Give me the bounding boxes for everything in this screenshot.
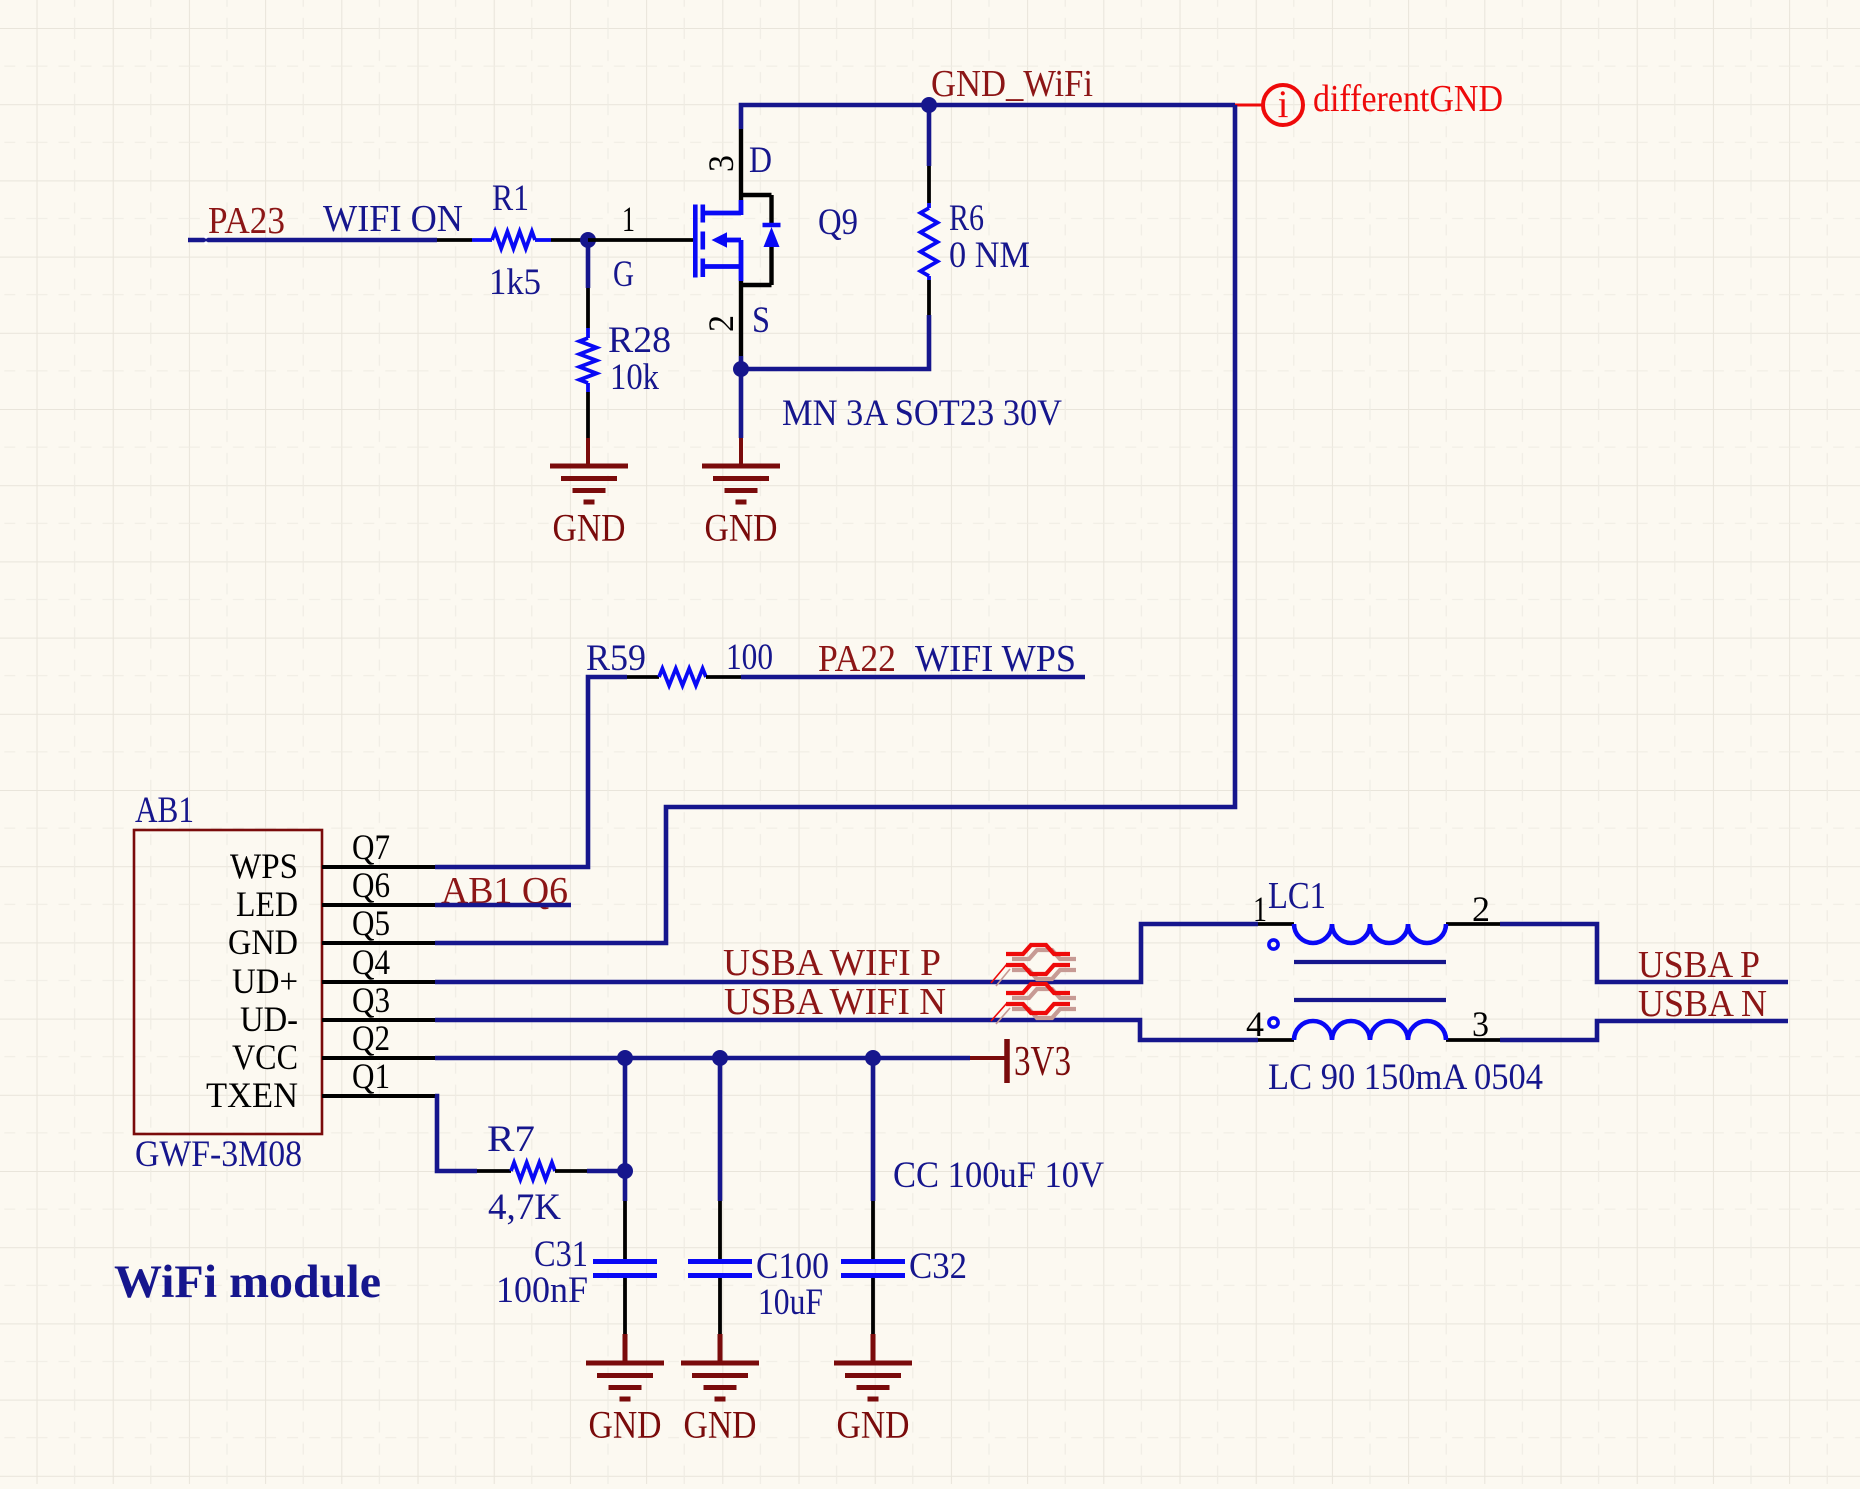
svg-text:Q4: Q4: [352, 942, 390, 982]
core line 1: [1294, 960, 1446, 964]
core line 2: [1294, 998, 1446, 1002]
capacitor C32: [841, 1058, 967, 1334]
capacitor C100: [688, 1058, 829, 1334]
svg-text:differentGND: differentGND: [1313, 78, 1503, 120]
coil winding bottom: [1294, 1021, 1446, 1040]
wire VCC rail: [435, 1056, 970, 1061]
svg-text:WPS: WPS: [230, 846, 298, 886]
svg-text:GND: GND: [589, 1404, 662, 1447]
svg-text:Q6: Q6: [352, 865, 390, 905]
ground GND (below C100): [681, 1334, 759, 1447]
wire junction to Q9 gate pin: [588, 238, 693, 242]
svg-text:3V3: 3V3: [1014, 1039, 1071, 1085]
wire UD+ to LC1 pin 1: [435, 924, 1258, 982]
svg-text:AB1: AB1: [135, 790, 194, 831]
resistor R6: [921, 105, 1031, 315]
svg-text:4,7K: 4,7K: [488, 1187, 561, 1228]
junction VCC/C100: [712, 1050, 728, 1066]
junction GND_WiFi node: [921, 97, 937, 113]
svg-text:R28: R28: [608, 320, 671, 361]
svg-text:C31: C31: [534, 1234, 588, 1275]
junction gate node: [580, 232, 596, 248]
svg-text:USBA WIFI P: USBA WIFI P: [723, 942, 941, 984]
pin 1: [1258, 922, 1294, 926]
svg-text:UD-: UD-: [240, 999, 298, 1039]
pin Q2 (VCC): [322, 1056, 435, 1060]
resistor R28: [580, 247, 672, 438]
svg-text:100nF: 100nF: [496, 1270, 588, 1311]
svg-text:USBA N: USBA N: [1638, 983, 1767, 1025]
pin lead R1 right: [551, 238, 588, 242]
differential pair directive (P): [991, 945, 1076, 986]
svg-text:LC1: LC1: [1268, 875, 1326, 917]
svg-text:GND: GND: [837, 1404, 910, 1447]
pin Q5 (GND): [322, 941, 435, 945]
differential pair directive (N): [991, 984, 1076, 1024]
svg-text:C100: C100: [756, 1246, 829, 1287]
resistor R1: [472, 178, 551, 303]
pin 2: [1446, 922, 1500, 926]
svg-text:10uF: 10uF: [758, 1282, 823, 1323]
svg-text:C32: C32: [909, 1246, 967, 1287]
svg-text:USBA P: USBA P: [1638, 944, 1760, 986]
resistor R7: [487, 1119, 561, 1228]
svg-text:R1: R1: [492, 178, 529, 219]
pin Q4 (UD+): [322, 980, 435, 984]
resistor R59: [586, 637, 773, 686]
wire LC1 pin2 to USBA_P: [1500, 924, 1788, 982]
svg-text:R7: R7: [487, 1119, 535, 1160]
component AB1 (GWF-3M08 WiFi module): [134, 790, 435, 1175]
pin 3: [1446, 1038, 1500, 1042]
junction R7/C31: [617, 1163, 633, 1179]
svg-text:VCC: VCC: [232, 1037, 298, 1077]
svg-text:GND_WiFi: GND_WiFi: [931, 63, 1093, 105]
svg-text:Q9: Q9: [818, 202, 858, 243]
power port 3V3: [970, 1039, 1071, 1085]
svg-text:GND: GND: [705, 507, 778, 550]
svg-text:1k5: 1k5: [489, 262, 541, 303]
polarity dot pin1: [1269, 940, 1278, 949]
svg-text:GND: GND: [553, 507, 626, 550]
svg-text:i: i: [1278, 83, 1289, 126]
svg-text:R6: R6: [949, 198, 984, 239]
directive differentGND: [1235, 78, 1503, 126]
ground GND (below C32): [834, 1334, 912, 1447]
svg-text:WiFi module: WiFi module: [114, 1256, 381, 1308]
svg-text:GWF-3M08: GWF-3M08: [135, 1134, 302, 1175]
wire LC1 pin3 to USBA_N: [1500, 1021, 1788, 1040]
ground GND (below R28): [550, 438, 628, 550]
svg-text:PA23: PA23: [208, 200, 285, 242]
pin lead R59 left: [627, 675, 659, 679]
svg-text:WIFI ON: WIFI ON: [323, 198, 463, 240]
wire UD- to LC1 pin 4: [435, 1020, 1258, 1040]
pin lead R7 left: [477, 1169, 511, 1173]
junction source node: [733, 361, 749, 377]
svg-text:UD+: UD+: [232, 961, 298, 1001]
wire Q9 drain to GND_WiFi net: [741, 105, 1235, 129]
svg-text:LED: LED: [236, 884, 298, 924]
svg-text:4: 4: [1246, 1004, 1264, 1044]
pin lead R1 left: [437, 238, 472, 242]
svg-text:GND: GND: [228, 922, 298, 962]
polarity dot pin4: [1269, 1018, 1278, 1027]
wire source node to ground: [739, 369, 744, 438]
wire R59 to PA22_WIFI_WPS: [741, 675, 1085, 680]
svg-text:LC 90 150mA 0504: LC 90 150mA 0504: [1268, 1057, 1543, 1098]
wire R7 to C31 column: [587, 1169, 625, 1174]
svg-text:3: 3: [1472, 1004, 1489, 1044]
svg-text:D: D: [749, 140, 772, 181]
ground GND (below Q9): [702, 438, 780, 550]
svg-text:G: G: [613, 254, 634, 295]
svg-text:TXEN: TXEN: [206, 1075, 298, 1115]
svg-text:WIFI WPS: WIFI WPS: [915, 638, 1076, 680]
svg-text:MN 3A SOT23 30V: MN 3A SOT23 30V: [782, 393, 1062, 434]
wire AB1 Q6 stub: [435, 903, 571, 908]
svg-text:Q7: Q7: [352, 827, 390, 867]
capacitor C31: [496, 1058, 657, 1334]
junction VCC/C31: [617, 1050, 633, 1066]
coil winding top: [1294, 924, 1446, 943]
inductor LC1 (common-mode choke): [1246, 875, 1543, 1098]
pin Q1 (TXEN): [322, 1094, 435, 1098]
svg-text:1: 1: [622, 199, 635, 239]
wire Q9 source pin to node: [739, 356, 744, 369]
svg-text:Q5: Q5: [352, 903, 390, 943]
svg-text:Q1: Q1: [352, 1056, 390, 1096]
svg-text:2: 2: [701, 315, 741, 332]
pin 4: [1258, 1038, 1294, 1042]
ground GND (below C31): [586, 1334, 664, 1447]
svg-text:0 NM: 0 NM: [949, 235, 1030, 276]
pin Q3 (UD-): [322, 1018, 435, 1022]
svg-text:PA22: PA22: [818, 638, 896, 680]
wire R6 bottom to source node: [741, 315, 929, 369]
wire GND_WiFi down to AB1 GND pin: [435, 105, 1235, 943]
svg-text:10k: 10k: [610, 357, 659, 398]
transistor Q9 (N-MOSFET): [613, 129, 858, 356]
svg-text:GND: GND: [684, 1404, 757, 1447]
pin lead R59 right: [706, 675, 741, 679]
pin Q7 (WPS): [322, 865, 435, 869]
svg-text:CC 100uF 10V: CC 100uF 10V: [893, 1155, 1104, 1196]
wire PA23 to R1: [188, 238, 437, 243]
junction VCC/C32: [865, 1050, 881, 1066]
wire TXEN to R7: [435, 1096, 477, 1171]
svg-text:R59: R59: [586, 638, 646, 679]
pin Q6 (LED): [322, 903, 435, 907]
pin lead R7 right: [555, 1169, 587, 1173]
svg-text:3: 3: [701, 155, 741, 172]
svg-text:USBA WIFI N: USBA WIFI N: [724, 981, 946, 1023]
wire start marker: [204, 235, 208, 239]
svg-text:Q3: Q3: [352, 980, 390, 1020]
wire AB1 Q7 up to R59: [435, 677, 627, 867]
svg-text:100: 100: [726, 637, 773, 678]
svg-text:S: S: [752, 300, 770, 341]
svg-text:Q2: Q2: [352, 1018, 390, 1058]
